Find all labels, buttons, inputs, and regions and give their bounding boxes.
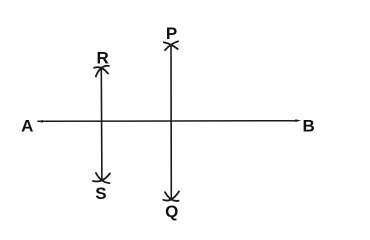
svg-text:R: R	[96, 49, 108, 68]
node Q arc cross mark	[163, 191, 179, 201]
node R arc cross mark	[94, 66, 109, 77]
wire: line segment AB	[38, 120, 297, 123]
svg-text:P: P	[166, 24, 177, 43]
wire: perpendicular line PQ	[170, 45, 172, 200]
wire: perpendicular line RS	[100, 68, 103, 180]
svg-text:B: B	[303, 117, 315, 136]
right arrowhead at B end	[295, 119, 301, 122]
svg-text:S: S	[95, 184, 106, 203]
svg-text:A: A	[21, 117, 33, 136]
node S arc cross mark	[93, 173, 110, 183]
svg-text:Q: Q	[165, 202, 178, 221]
left arrowhead at A end	[37, 120, 43, 123]
node P arc cross mark	[164, 41, 178, 50]
